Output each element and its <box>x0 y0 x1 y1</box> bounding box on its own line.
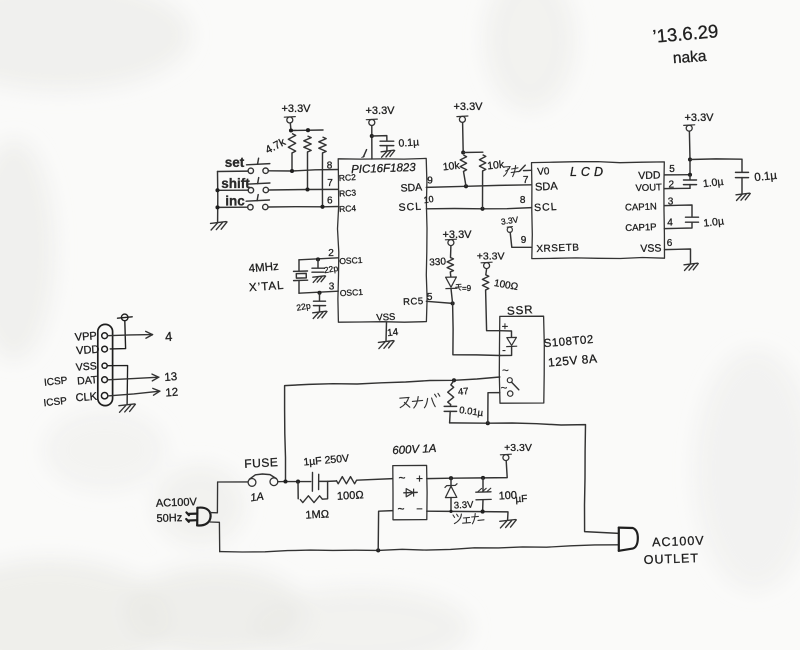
crystal X1 4MHz <box>298 260 300 271</box>
svg-text:10k: 10k <box>442 160 461 174</box>
outlet J2 AC100V <box>619 528 638 551</box>
junction bus-R1 <box>289 128 293 132</box>
mcu U1 PIC16F1823 box <box>338 158 428 322</box>
svg-text:VSS: VSS <box>640 242 661 255</box>
wire VSS to ground (ICSP) <box>107 366 127 405</box>
wire snubber bottom / AC to outlet <box>450 423 619 534</box>
svg-text:+3.3V: +3.3V <box>453 101 483 113</box>
capacitor C9 100uF <box>482 478 484 492</box>
svg-text:1.0µ: 1.0µ <box>702 176 724 190</box>
capacitor C4 1.0u (VDD-VOUT) <box>689 175 691 180</box>
svg-text:XRSETB: XRSETB <box>536 242 579 254</box>
svg-text:-: - <box>502 345 506 357</box>
wire set left <box>218 170 249 172</box>
wire shift left <box>218 189 249 191</box>
resistor R1 4.7k (set pull-up) <box>288 134 295 154</box>
junction OSC1-C2 <box>316 257 320 261</box>
resistor R3 4.7k (inc pull-up) <box>319 137 326 153</box>
resistor R4 10k (SDA) <box>460 155 466 172</box>
capacitor C5 1.0u (CAP1N-CAP1P) <box>686 216 699 218</box>
ground (LCD VSS) <box>684 263 698 265</box>
junction inc-R3 <box>320 205 324 209</box>
svg-text:8: 8 <box>327 161 333 172</box>
resistor R9 100ohm (X-cap series) <box>336 477 356 484</box>
svg-text:14: 14 <box>387 327 400 339</box>
svg-text:+3.3V: +3.3V <box>365 105 395 117</box>
svg-text:1.0µ: 1.0µ <box>703 215 725 229</box>
wire plug to live <box>210 482 217 513</box>
svg-text:RC2: RC2 <box>339 172 357 183</box>
ground (C2) <box>313 276 325 277</box>
svg-text:+3.3V: +3.3V <box>684 112 714 124</box>
wire DC- rail <box>427 511 508 520</box>
svg-text:LCD: LCD <box>570 165 607 179</box>
switch SW1 set <box>248 168 253 173</box>
capacitor C3 22p <box>319 293 321 301</box>
svg-text:10k: 10k <box>487 159 506 173</box>
resistor R8 47 (snubber) <box>451 380 454 385</box>
svg-text:shift: shift <box>221 176 250 191</box>
junction DC+ cap <box>481 476 485 480</box>
svg-text:600V 1A: 600V 1A <box>392 443 437 457</box>
svg-text:7: 7 <box>327 178 333 189</box>
wire switch common bus <box>217 172 219 223</box>
svg-text:100Ω: 100Ω <box>337 489 365 502</box>
junction set-R1 <box>290 169 294 173</box>
wire inc left <box>218 206 248 208</box>
zener D2 3.3V <box>450 478 452 485</box>
capacitor C6 0.1u <box>736 171 749 173</box>
junction VDD-C1 <box>370 134 374 138</box>
wire C1 branch <box>372 136 387 141</box>
ground (ICSP) <box>119 404 135 406</box>
svg-text:4: 4 <box>165 329 173 344</box>
capacitor C1 0.1u <box>380 140 394 142</box>
capacitor C2 22p <box>317 259 319 267</box>
svg-text:naka: naka <box>672 48 707 67</box>
ground (PIC VSS) <box>378 341 393 343</box>
label snubber katakana (sunaba) <box>400 393 440 408</box>
svg-text:~: ~ <box>501 383 507 395</box>
wire X-cap to R9 <box>319 480 336 482</box>
label aki (open) katakana <box>504 166 519 177</box>
svg-text:+3.3V: +3.3V <box>477 251 505 263</box>
wire CAP1N pin <box>664 205 692 217</box>
resistor R6 330 <box>447 258 453 273</box>
wire VOUT pin <box>664 187 690 189</box>
svg-text:0.1µ: 0.1µ <box>398 136 419 149</box>
label E=9 (LED note) <box>456 284 462 290</box>
ground (C6) <box>736 193 750 195</box>
svg-text:SCL: SCL <box>398 201 422 214</box>
junction OSC1-C3 <box>317 291 321 295</box>
ssr internal switch <box>507 378 512 383</box>
switch SW3 inc <box>248 205 253 210</box>
junction riser tap <box>283 479 287 483</box>
svg-text:9: 9 <box>521 235 527 246</box>
svg-text:set: set <box>225 155 245 170</box>
svg-text:5: 5 <box>669 164 675 175</box>
junction bus-shift <box>215 188 219 192</box>
junction 1M tap left <box>296 480 300 484</box>
junction DC+ zener <box>449 476 453 480</box>
wire R9 to bridge <box>357 479 393 481</box>
ground (switch common) <box>211 222 227 224</box>
svg-text:SCL: SCL <box>534 201 558 214</box>
wire inc right to RC4 <box>268 206 338 209</box>
svg-text:CAP1P: CAP1P <box>625 222 657 234</box>
svg-text:9: 9 <box>427 176 433 187</box>
svg-text:~: ~ <box>398 471 405 485</box>
svg-text:SDA: SDA <box>535 180 559 193</box>
junction snubber-SSR <box>486 421 490 425</box>
wire neutral rail <box>220 545 619 552</box>
wire to C6 <box>690 159 742 172</box>
wire V0 open stub <box>524 169 532 171</box>
wire SSR AC out <box>488 393 500 424</box>
svg-text:DAT: DAT <box>77 374 99 387</box>
ssr internal led <box>500 331 512 338</box>
junction neutral-bridge <box>376 548 380 552</box>
svg-text:13: 13 <box>164 371 178 384</box>
svg-text:50Hz: 50Hz <box>156 512 182 525</box>
wire SCL net <box>426 208 531 209</box>
svg-text:RC5: RC5 <box>403 296 424 308</box>
svg-text:inc: inc <box>225 194 245 209</box>
wire OSC1 pin2 <box>299 258 338 260</box>
svg-text:8: 8 <box>520 195 526 206</box>
switch SW2 shift <box>248 188 253 193</box>
wire SDA net <box>426 185 531 188</box>
svg-text:330: 330 <box>429 256 447 268</box>
wire VPP arrow to pin4 <box>108 335 153 336</box>
junction snubber top <box>452 378 456 382</box>
label zener katakana <box>453 514 484 524</box>
svg-text:VDD: VDD <box>76 344 100 358</box>
junction RC5 node <box>451 301 455 305</box>
svg-text:~: ~ <box>502 365 508 377</box>
bridge internal diode <box>404 491 417 493</box>
resistor R7 100ohm <box>482 275 488 290</box>
wire live to fuse <box>218 481 248 483</box>
junction bus-inc <box>215 205 219 209</box>
wire AC live riser <box>285 377 500 482</box>
svg-text:AC100V: AC100V <box>652 534 705 550</box>
svg-text:6: 6 <box>327 196 333 207</box>
svg-text:+3.3V: +3.3V <box>504 442 532 454</box>
svg-text:VOUT: VOUT <box>635 182 662 194</box>
svg-text:VSS: VSS <box>75 360 97 373</box>
fuse F1 1A <box>248 479 256 487</box>
wire fuse to X-cap <box>278 481 311 483</box>
svg-text:SSR: SSR <box>507 304 534 318</box>
svg-text:RC4: RC4 <box>339 203 357 214</box>
bridge rectifier BR1 box <box>393 465 427 519</box>
svg-text:V0: V0 <box>537 166 550 178</box>
junction SCL-R5 <box>480 207 484 211</box>
wire XRSETB <box>510 232 532 247</box>
wire DC+ rail <box>427 461 507 479</box>
svg-text:3.3V: 3.3V <box>454 499 475 511</box>
svg-text:CAP1N: CAP1N <box>625 201 657 213</box>
svg-text:4: 4 <box>667 218 673 229</box>
svg-text:AC100V: AC100V <box>156 496 198 509</box>
wire VSS to ground <box>385 322 388 341</box>
svg-text:CLK: CLK <box>75 391 98 405</box>
svg-text:~: ~ <box>397 502 404 516</box>
svg-text:+: + <box>416 472 423 486</box>
ground (C3) <box>313 311 327 313</box>
capacitor C8 1uF 250V <box>311 473 313 492</box>
pin 1 marker <box>363 150 366 157</box>
svg-text:12: 12 <box>165 387 179 400</box>
pin 1 marker (V0) <box>519 165 525 171</box>
svg-text:OSC1: OSC1 <box>340 287 364 298</box>
resistor R10 1Mohm (bleeder) <box>297 482 299 499</box>
svg-text:SDA: SDA <box>400 181 422 194</box>
svg-text:=9: =9 <box>462 284 472 293</box>
led D1 <box>445 277 457 289</box>
svg-text:FUSE: FUSE <box>244 455 279 471</box>
wire bridge AC2 in <box>378 511 393 551</box>
relay U3 SSR box <box>499 316 544 403</box>
wire pull-up bus <box>463 151 483 153</box>
resistor R2 4.7k (shift pull-up) <box>304 136 311 152</box>
wire CLK arrow to pin12 <box>108 391 160 396</box>
junction VDD-C4 <box>688 173 692 177</box>
wire CAP1P pin <box>664 222 692 228</box>
svg-text:10: 10 <box>423 194 434 205</box>
wire RC5 to SSR minus <box>453 303 500 355</box>
wire VSS pin (LCD) <box>665 249 691 263</box>
junction DC- zener <box>449 510 452 513</box>
plug P1 (AC100V 50Hz) <box>186 508 210 526</box>
svg-text:RC3: RC3 <box>339 188 357 199</box>
junction pull-up bus <box>461 150 465 154</box>
svg-text:0.1µ: 0.1µ <box>754 170 778 184</box>
wire DAT arrow to pin13 <box>108 377 159 380</box>
svg-text:X’TAL: X’TAL <box>249 280 285 294</box>
svg-text:1A: 1A <box>250 491 265 505</box>
wire OSC1 pin3 <box>299 291 338 293</box>
wire +3.3V bus to pull-ups <box>291 129 323 132</box>
wire shift right to RC3 <box>269 188 339 191</box>
svg-text:−: − <box>416 504 422 516</box>
svg-text:VPP: VPP <box>74 330 97 344</box>
wire RC5 out <box>426 301 452 303</box>
wire plug to neutral <box>210 522 220 552</box>
svg-text:PIC16F1823: PIC16F1823 <box>351 162 417 176</box>
junction shift-R2 <box>305 187 309 191</box>
wire set right to RC2 <box>268 170 338 172</box>
terminal (ICSP VDD) <box>121 314 128 321</box>
svg-text:VDD: VDD <box>638 169 661 182</box>
wire VDD pin <box>664 174 690 176</box>
junction DC- cap <box>481 510 485 514</box>
svg-text:OSC1: OSC1 <box>339 255 363 266</box>
resistor R5 10k (SCL) <box>479 155 485 171</box>
connector J1 ICSP <box>98 324 113 405</box>
ground (C1) <box>381 150 394 152</box>
svg-text:+3.3V: +3.3V <box>281 103 311 115</box>
ground (DC-) <box>500 520 516 522</box>
junction bus-R2 <box>306 128 310 132</box>
svg-text:1MΩ: 1MΩ <box>305 508 330 521</box>
svg-text:47: 47 <box>458 386 469 398</box>
svg-text:OUTLET: OUTLET <box>643 551 699 567</box>
svg-text:6: 6 <box>667 238 673 249</box>
capacitor C7 0.01u (snubber) <box>449 405 451 406</box>
junction SDA-R4 <box>464 184 468 188</box>
junction +3.3V split <box>688 157 692 161</box>
svg-text:µF: µF <box>515 494 527 506</box>
svg-text:7: 7 <box>523 175 529 186</box>
lcd module U2 box <box>532 162 665 259</box>
